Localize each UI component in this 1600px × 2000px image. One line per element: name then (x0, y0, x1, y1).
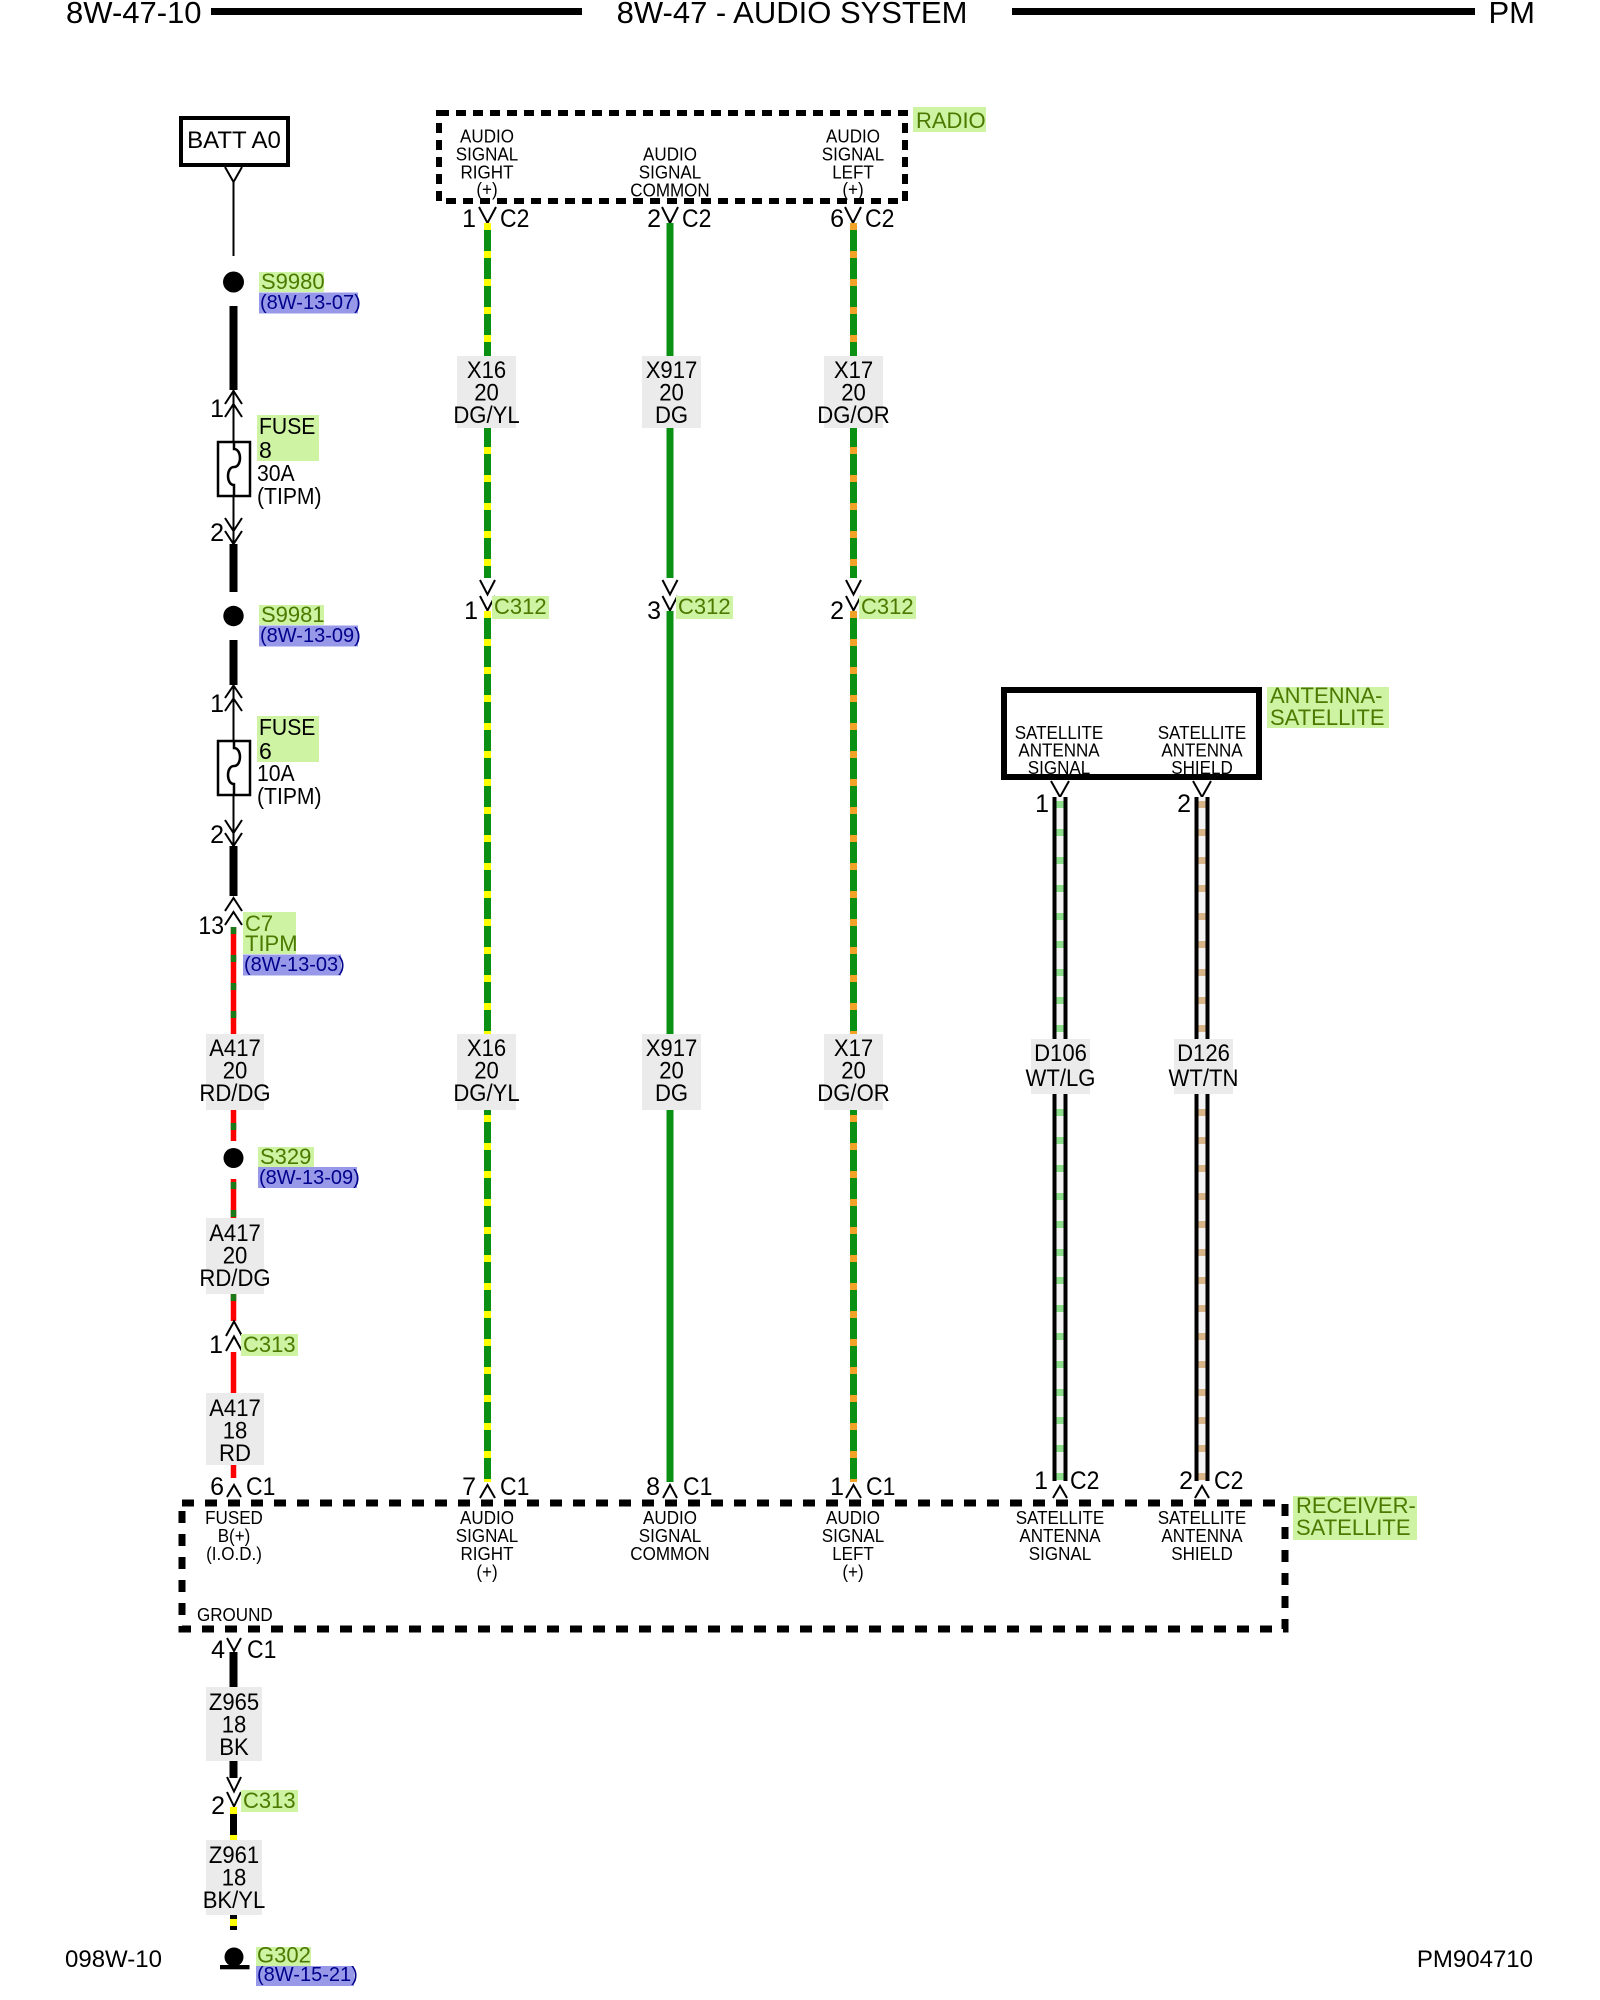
ground G302 symbol (225, 1948, 244, 1967)
svg-text:1: 1 (210, 395, 224, 423)
wire label X917 20 DG (642, 356, 701, 429)
svg-text:C2: C2 (865, 205, 894, 233)
svg-text:2: 2 (210, 519, 224, 547)
svg-text:2: 2 (1179, 1467, 1193, 1495)
svg-text:C1: C1 (500, 1473, 529, 1501)
wire label D106 WT/LG (1026, 1039, 1096, 1094)
svg-text:1: 1 (464, 597, 478, 625)
svg-text:(+): (+) (842, 179, 863, 200)
svg-text:SIGNAL: SIGNAL (1029, 1543, 1091, 1564)
svg-text:RD: RD (219, 1440, 251, 1467)
wire X17 DG/OR upper (850, 223, 857, 578)
wire X17 DG/OR lower (850, 611, 857, 1482)
svg-text:SATELLITE: SATELLITE (1270, 705, 1385, 730)
svg-text:8W-47-10: 8W-47-10 (66, 0, 202, 30)
svg-text:098W-10: 098W-10 (65, 1946, 162, 1973)
wire label X17 20 DG/OR (817, 356, 889, 429)
wire A417 RD/DG from C7 to S329 (231, 927, 237, 1141)
svg-text:1: 1 (1035, 790, 1049, 818)
svg-text:(TIPM): (TIPM) (257, 783, 322, 809)
svg-text:(8W-15-21): (8W-15-21) (257, 1964, 358, 1986)
svg-text:DG/YL: DG/YL (453, 1080, 519, 1107)
label G302 (256, 1947, 311, 1966)
wire fuse6 to C7 (230, 846, 238, 896)
svg-text:PM: PM (1489, 0, 1536, 30)
svg-text:2: 2 (210, 821, 224, 849)
svg-text:BK: BK (219, 1734, 249, 1761)
link label (8W-13-07) (259, 293, 358, 314)
splice S9981 (223, 606, 243, 626)
pin 1 arrow into fuse 6 (225, 686, 242, 712)
wire label A417 18 RD (206, 1393, 264, 1467)
fuse F6 symbol (218, 741, 250, 795)
wire X917 DG lower (667, 611, 674, 1482)
svg-text:RADIO: RADIO (916, 108, 986, 133)
wire label X16 20 DG/YL lower (453, 1034, 519, 1110)
svg-text:DG/OR: DG/OR (817, 1080, 889, 1107)
svg-text:(TIPM): (TIPM) (257, 483, 322, 509)
svg-text:SHIELD: SHIELD (1171, 1543, 1233, 1564)
wire label X16 20 DG/YL (453, 356, 519, 429)
svg-text:2: 2 (211, 1792, 225, 1820)
svg-text:RD/DG: RD/DG (199, 1265, 270, 1292)
svg-text:C1: C1 (247, 1636, 276, 1664)
connector 1 C312 (480, 580, 495, 611)
svg-text:D126: D126 (1177, 1040, 1230, 1067)
svg-text:(8W-13-03): (8W-13-03) (244, 954, 345, 976)
svg-text:C2: C2 (500, 205, 529, 233)
pin 1 arrow into fuse 8 (225, 391, 242, 417)
svg-text:D106: D106 (1034, 1040, 1087, 1067)
svg-text:S9980: S9980 (261, 269, 325, 294)
svg-text:C312: C312 (678, 594, 731, 619)
svg-text:DG/OR: DG/OR (817, 402, 889, 429)
label S329 (258, 1147, 314, 1167)
svg-text:WT/LG: WT/LG (1026, 1065, 1096, 1092)
splice S329 (224, 1148, 244, 1168)
svg-text:FUSE: FUSE (259, 413, 315, 439)
connector pin 2 C313 (227, 1777, 241, 1807)
connector 3 C312 (663, 580, 678, 611)
pin 2 arrow out of fuse 6 (233, 795, 235, 845)
svg-text:SIGNAL: SIGNAL (1028, 757, 1090, 778)
svg-text:COMMON: COMMON (630, 180, 709, 201)
label RECEIVER-SATELLITE (1293, 1496, 1417, 1540)
splice S9980 (223, 272, 244, 293)
svg-text:C1: C1 (683, 1473, 712, 1501)
svg-text:6: 6 (210, 1473, 224, 1501)
svg-text:C1: C1 (246, 1473, 275, 1501)
wire X16 DG/YL upper (484, 223, 491, 578)
svg-text:1: 1 (462, 205, 476, 233)
connector pin 13 C7 TIPM (225, 898, 242, 925)
svg-text:GROUND: GROUND (197, 1604, 273, 1625)
svg-text:2: 2 (1177, 790, 1191, 818)
wire X917 DG upper (667, 223, 674, 578)
svg-text:BATT A0: BATT A0 (187, 127, 281, 154)
wire label X917 20 DG lower (642, 1034, 701, 1110)
svg-text:DG: DG (655, 402, 688, 429)
svg-text:RD/DG: RD/DG (199, 1080, 270, 1107)
svg-text:TIPM: TIPM (245, 931, 298, 956)
battery feed box BATT A0 (181, 118, 288, 165)
svg-text:13: 13 (198, 912, 224, 940)
connector pin 1 C313 (226, 1322, 242, 1352)
link label (8W-13-09) (259, 626, 358, 647)
svg-text:8W-47 - AUDIO SYSTEM: 8W-47 - AUDIO SYSTEM (617, 0, 968, 30)
svg-text:7: 7 (462, 1473, 476, 1501)
svg-text:COMMON: COMMON (630, 1543, 709, 1564)
wire label A417 20 RD/DG (199, 1034, 270, 1110)
wire fuse8 to splice S9981 (230, 544, 238, 592)
wire splice to fuse 6 (230, 640, 238, 685)
connector label C313 (241, 1334, 298, 1356)
svg-text:WT/TN: WT/TN (1169, 1065, 1239, 1092)
label S9981 (259, 605, 324, 625)
svg-text:2: 2 (830, 597, 844, 625)
wire A417 RD/DG from S329 to C313 (231, 1179, 237, 1321)
svg-text:C312: C312 (494, 594, 547, 619)
svg-text:(+): (+) (842, 1561, 863, 1582)
wire from BATT to splice (233, 182, 235, 256)
label RADIO (913, 107, 986, 132)
svg-text:C2: C2 (682, 205, 711, 233)
svg-text:DG: DG (655, 1080, 688, 1107)
svg-text:(8W-13-09): (8W-13-09) (260, 625, 361, 647)
label ANTENNA-SATELLITE (1267, 687, 1389, 728)
connector 2 C312 (846, 580, 861, 611)
svg-text:(I.O.D.): (I.O.D.) (206, 1543, 262, 1564)
svg-text:PM904710: PM904710 (1417, 1946, 1533, 1973)
wire Z965 BK (230, 1652, 238, 1778)
fuse F8 symbol (218, 442, 250, 496)
RECEIVER-SATELLITE unit box (182, 1503, 1285, 1629)
svg-text:1: 1 (1034, 1467, 1048, 1495)
svg-text:BK/YL: BK/YL (203, 1887, 266, 1914)
wire Z961 BK/YL (230, 1807, 237, 1930)
svg-text:4: 4 (211, 1636, 225, 1664)
svg-text:8: 8 (646, 1473, 660, 1501)
connector label C313 (241, 1790, 298, 1812)
svg-text:1: 1 (209, 1331, 223, 1359)
svg-text:6: 6 (830, 205, 844, 233)
wire label D126 WT/TN (1169, 1039, 1239, 1094)
svg-text:1: 1 (830, 1473, 844, 1501)
RADIO unit box (439, 113, 905, 201)
label FUSE 6 (257, 716, 319, 740)
ANTENNA-SATELLITE unit box (1004, 690, 1259, 777)
wire label Z965 18 BK (206, 1687, 262, 1761)
svg-text:C313: C313 (243, 1788, 296, 1813)
wire label X17 20 DG/OR lower (817, 1034, 889, 1110)
link label (8W-13-03) (243, 955, 341, 976)
svg-text:FUSE: FUSE (259, 714, 315, 740)
svg-text:S9981: S9981 (261, 602, 325, 627)
svg-text:(8W-13-09): (8W-13-09) (259, 1167, 360, 1189)
wire splice to fuse 8 (230, 306, 238, 390)
wire A417 18 RD from C313 to receiver (231, 1352, 237, 1478)
svg-text:1: 1 (210, 690, 224, 718)
wire label A417 20 RD/DG (199, 1218, 270, 1294)
svg-text:(+): (+) (476, 179, 497, 200)
svg-text:(+): (+) (476, 1561, 497, 1582)
pin 2 arrow out of fuse 8 (233, 496, 235, 543)
svg-text:C312: C312 (861, 594, 914, 619)
svg-text:DG/YL: DG/YL (453, 402, 519, 429)
svg-text:3: 3 (647, 597, 661, 625)
svg-text:SHIELD: SHIELD (1171, 757, 1233, 778)
svg-text:C313: C313 (243, 1332, 296, 1357)
label S9980 (259, 272, 324, 292)
connector triangle below BATT (225, 167, 242, 182)
wire X16 DG/YL lower (484, 611, 491, 1482)
svg-text:C2: C2 (1070, 1467, 1099, 1495)
svg-text:C1: C1 (866, 1473, 895, 1501)
link label (8W-13-09) (258, 1167, 357, 1188)
wire label Z961 18 BK/YL (203, 1840, 266, 1915)
svg-text:2: 2 (647, 205, 661, 233)
connector label C7 TIPM (243, 912, 296, 934)
coax wire D126 WT/TN (1195, 797, 1210, 1481)
svg-text:SATELLITE: SATELLITE (1296, 1515, 1411, 1540)
link label (8W-15-21) (256, 1966, 354, 1986)
svg-text:S329: S329 (260, 1144, 311, 1169)
svg-text:(8W-13-07): (8W-13-07) (260, 292, 361, 314)
coax wire D106 WT/LG (1053, 797, 1068, 1481)
svg-text:C2: C2 (1214, 1467, 1243, 1495)
label FUSE 8 (257, 415, 319, 439)
